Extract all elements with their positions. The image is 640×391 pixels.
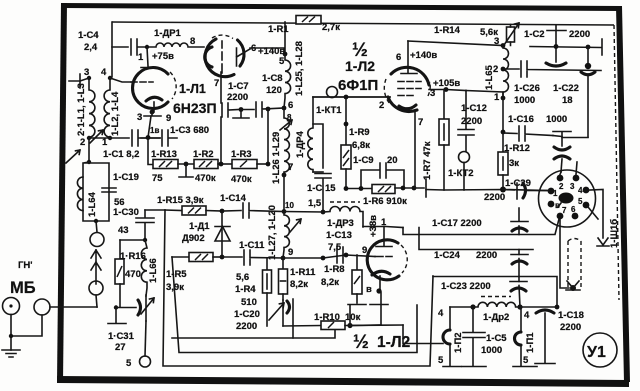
resistor 1-R6 xyxy=(372,185,395,194)
svg-text:1: 1 xyxy=(494,92,500,103)
wire: down to pin 5 xyxy=(145,321,146,356)
triode1 grid (dashed) xyxy=(131,81,153,83)
capacitor 1-C7 xyxy=(222,103,239,117)
wire: pentode cathode down to row xyxy=(414,112,416,188)
svg-text:1-С7: 1-С7 xyxy=(228,81,249,92)
wire: C23 node to DR2 xyxy=(555,305,560,310)
node under C30 xyxy=(143,238,147,242)
capacitor 1-C2 xyxy=(547,25,566,62)
capacitor C23 (feedthrough) xyxy=(510,281,527,283)
pentode cathode xyxy=(399,105,416,109)
svg-text:1-R9: 1-R9 xyxy=(349,127,370,138)
pentode grids dashed rows xyxy=(398,81,421,83)
inductor 1-L26/1-L29 (IF primary) xyxy=(284,108,289,175)
svg-text:5: 5 xyxy=(578,197,583,206)
test point 1-KT2 xyxy=(459,152,470,163)
svg-text:1-R6 910к: 1-R6 910к xyxy=(363,196,407,207)
inductor 1-DR1 xyxy=(147,43,204,47)
tube 1-L1 triode 2 (6N23P right half) envelope xyxy=(205,39,244,77)
wire: to jack P2 xyxy=(403,325,443,344)
svg-text:6: 6 xyxy=(396,52,401,63)
capacitor 1-C31 stem and plate xyxy=(108,308,126,324)
svg-text:2: 2 xyxy=(493,64,498,75)
node 10 xyxy=(282,209,287,214)
svg-text:3: 3 xyxy=(570,182,575,191)
wire: L65 bottom chain down xyxy=(502,98,504,152)
svg-text:1-С13: 1-С13 xyxy=(326,230,352,241)
capacitor 1-C13 xyxy=(337,247,343,263)
resistor 1-R9 vertical xyxy=(345,97,347,145)
capacitor 1-C19 on box right xyxy=(102,188,116,192)
wire: rail corner down to coil node xyxy=(110,22,112,78)
svg-text:6: 6 xyxy=(571,205,576,214)
wire: +105 row to L65 bottom xyxy=(466,91,503,99)
svg-text:7: 7 xyxy=(418,117,423,128)
svg-text:8: 8 xyxy=(190,36,195,47)
resistor 1-R3 xyxy=(232,160,257,169)
svg-text:+105в: +105в xyxy=(433,78,460,89)
svg-text:1-С29: 1-С29 xyxy=(505,178,531,189)
tube socket 1-Sh1 circle xyxy=(539,170,596,227)
svg-text:1-Др2: 1-Др2 xyxy=(483,312,509,323)
svg-text:3к: 3к xyxy=(509,158,519,169)
svg-text:1-С18: 1-С18 xyxy=(558,310,584,321)
pentode anode xyxy=(401,41,417,74)
svg-text:1-С17 2200: 1-С17 2200 xyxy=(432,218,482,229)
svg-text:+140в: +140в xyxy=(410,50,437,61)
svg-text:5: 5 xyxy=(438,355,444,366)
inductor 1-DR3 xyxy=(330,201,360,203)
svg-text:1-L26 1-L29: 1-L26 1-L29 xyxy=(271,132,282,184)
svg-text:1-R13: 1-R13 xyxy=(151,149,177,160)
svg-text:2,4: 2,4 xyxy=(84,42,98,53)
triode2 cathode xyxy=(205,47,212,67)
ground right rail xyxy=(597,238,609,246)
svg-text:9: 9 xyxy=(166,113,171,124)
svg-text:120: 120 xyxy=(266,85,282,96)
wire: screen +105v xyxy=(429,90,466,91)
ground stub under node xyxy=(179,164,193,177)
node top of input coils xyxy=(87,76,91,80)
socket center key xyxy=(559,193,574,204)
triode1 anode xyxy=(141,47,156,68)
svg-text:1-ДР4: 1-ДР4 xyxy=(295,130,306,158)
resistor 1-R13 xyxy=(153,160,178,169)
tube 6F1P pentode envelope xyxy=(388,67,429,111)
inductor 1-L66 xyxy=(141,240,147,296)
connector jack circle 1 xyxy=(3,298,20,315)
svg-text:1-L66: 1-L66 xyxy=(148,258,159,283)
node R13-R2 xyxy=(184,162,189,167)
resistor 1-R10 xyxy=(321,321,345,330)
capacitor C17 (feedthrough) xyxy=(511,208,528,222)
wire: anode row of L2 triode xyxy=(363,227,403,228)
node R5-C11 xyxy=(220,255,225,260)
svg-text:1-C19: 1-C19 xyxy=(113,172,139,183)
svg-text:ГН': ГН' xyxy=(18,260,33,271)
svg-text:1-R5: 1-R5 xyxy=(166,269,187,280)
svg-text:1-С: 1-С xyxy=(307,183,322,194)
node anode line to L65 xyxy=(501,43,506,48)
resistor 1-R1 (in rail) xyxy=(296,16,321,25)
shield dashed around pin7 wire xyxy=(567,241,569,287)
svg-text:1-С23 2200: 1-С23 2200 xyxy=(441,281,491,292)
wire: y338 long bottom wire xyxy=(172,326,335,338)
capacitor 1-C30 xyxy=(136,210,154,240)
svg-text:1-R7 47к: 1-R7 47к xyxy=(422,141,433,180)
node box bottom xyxy=(94,219,98,223)
svg-text:1-С11: 1-С11 xyxy=(239,240,265,251)
svg-text:1-С22: 1-С22 xyxy=(553,83,579,94)
svg-text:1-С3 680: 1-С3 680 xyxy=(170,125,209,136)
capacitor 1-C5 xyxy=(462,307,486,367)
svg-text:9: 9 xyxy=(288,247,293,258)
svg-text:510: 510 xyxy=(241,297,257,308)
wire: pin4 right to rail xyxy=(589,190,603,239)
svg-text:1-С2: 1-С2 xyxy=(524,29,545,40)
svg-text:15: 15 xyxy=(325,183,336,194)
inductor 1-L64 on box left xyxy=(77,177,83,211)
svg-text:27: 27 xyxy=(115,342,126,353)
svg-text:1-R1: 1-R1 xyxy=(268,24,289,35)
svg-text:2200: 2200 xyxy=(227,92,248,103)
svg-text:1,5: 1,5 xyxy=(308,198,322,209)
wire: pin1 left xyxy=(539,190,548,192)
svg-text:2·1-L1, 1-L3: 2·1-L1, 1-L3 xyxy=(76,83,87,136)
resistor 1-R16 (vertical) xyxy=(119,240,121,259)
trimmer capacitor at socket pin2 xyxy=(553,132,571,147)
variable capacitor 1-C20 xyxy=(287,301,290,313)
svg-text:1-С5: 1-С5 xyxy=(486,333,507,344)
svg-text:4: 4 xyxy=(438,308,444,319)
svg-text:10: 10 xyxy=(285,201,294,210)
wire: R16/L66 top xyxy=(120,239,145,241)
node grid-R9 xyxy=(344,95,349,100)
inductor 1-L1/1-L3 (left input coil) xyxy=(89,78,95,137)
resistor 1-R4 vertical xyxy=(266,258,268,270)
svg-text:1: 1 xyxy=(381,217,387,228)
svg-text:4: 4 xyxy=(578,186,583,195)
svg-text:2200: 2200 xyxy=(569,29,590,40)
svg-text:1-С16: 1-С16 xyxy=(508,114,534,125)
connector jack circle 2 xyxy=(34,299,50,315)
cathode tie bar xyxy=(144,112,161,116)
svg-text:1-Л2: 1-Л2 xyxy=(345,58,375,74)
svg-text:5,6: 5,6 xyxy=(236,272,249,283)
svg-text:1-L25, 1-L28: 1-L25, 1-L28 xyxy=(294,41,305,96)
wire: cathode bus y190 xyxy=(426,190,548,191)
wire: C8 node down to R3 xyxy=(267,109,269,164)
svg-text:МБ: МБ xyxy=(10,279,36,297)
capacitor 1-C22 top xyxy=(585,63,591,69)
plug pair (coax) circles with arrows xyxy=(96,221,97,232)
svg-text:2200: 2200 xyxy=(461,116,482,127)
triode2 anode xyxy=(237,48,251,66)
wire: +250V top rail xyxy=(112,22,614,25)
node R2-R3 with cathode line xyxy=(218,163,232,165)
resistor 1-R7 vertical xyxy=(443,90,445,120)
svg-text:1: 1 xyxy=(138,52,144,63)
capacitor 1-C16 xyxy=(503,126,553,141)
resistor 1-R2 xyxy=(178,163,194,165)
svg-text:1-L64: 1-L64 xyxy=(87,191,98,217)
svg-text:1-Л1: 1-Л1 xyxy=(179,82,206,96)
test point 1-KT1 xyxy=(327,87,338,98)
svg-text:1-R10: 1-R10 xyxy=(314,312,340,323)
svg-text:1-C4: 1-C4 xyxy=(78,30,99,41)
svg-text:7: 7 xyxy=(214,78,219,89)
svg-text:1-R14: 1-R14 xyxy=(434,25,461,36)
svg-text:+75в: +75в xyxy=(152,51,174,62)
svg-text:1-R8: 1-R8 xyxy=(324,264,345,275)
svg-text:в: в xyxy=(366,284,372,295)
variable capacitor plates at MB input xyxy=(116,307,136,309)
pin 5 terminal circle xyxy=(140,356,151,367)
wire: DR4 area right leg xyxy=(313,124,323,168)
svg-text:1-Д1: 1-Д1 xyxy=(189,221,210,232)
svg-text:1-Ш1б: 1-Ш1б xyxy=(609,219,620,248)
svg-text:Д902: Д902 xyxy=(182,233,205,244)
terminal bar (chassis feedthrough) xyxy=(414,179,426,197)
svg-text:2: 2 xyxy=(379,100,384,111)
svg-text:43: 43 xyxy=(118,225,129,236)
wire: cathode to grid row and down xyxy=(148,116,153,165)
svg-text:1-КТ2: 1-КТ2 xyxy=(448,168,474,179)
svg-text:5: 5 xyxy=(523,355,529,366)
svg-text:2: 2 xyxy=(559,182,564,191)
svg-text:18: 18 xyxy=(562,95,573,106)
svg-text:2200: 2200 xyxy=(476,250,497,261)
node anode junction left triode xyxy=(145,45,149,49)
svg-text:75: 75 xyxy=(152,173,163,184)
svg-text:5: 5 xyxy=(279,56,285,67)
inductor 1-DR2 xyxy=(481,296,511,298)
triode cathode xyxy=(372,271,390,275)
triode2 grid vertical dashed xyxy=(221,41,223,73)
svg-text:10к: 10к xyxy=(345,312,361,323)
triode anode xyxy=(376,227,392,247)
wire: pin5 diagonal xyxy=(588,207,598,219)
shield ground xyxy=(570,285,576,291)
triode grid dashed xyxy=(375,256,392,258)
svg-text:20: 20 xyxy=(387,155,398,166)
tube 1-L1 triode 1 (6N23P left half) envelope xyxy=(133,67,168,108)
svg-text:1-Л2: 1-Л2 xyxy=(377,334,410,351)
svg-text:470: 470 xyxy=(125,269,141,280)
node MB junction inside frame xyxy=(114,305,118,309)
svg-text:1-С20: 1-С20 xyxy=(234,309,260,320)
wire: L26 bottom to node 10 xyxy=(283,175,285,211)
svg-text:1-R15 3,9к: 1-R15 3,9к xyxy=(157,195,204,206)
svg-text:470к: 470к xyxy=(231,174,252,185)
wire: inner shield border dashed right xyxy=(614,25,619,300)
svg-text:2: 2 xyxy=(80,137,85,148)
node R15-C14 xyxy=(220,209,225,214)
unit symbol U1 xyxy=(583,333,617,367)
tube 1-L2 triode (audio) envelope xyxy=(367,240,399,280)
wire from C30 up to R15 node xyxy=(145,209,165,211)
box outer (block 2) xyxy=(163,210,433,366)
svg-text:1-L27, 1-L20: 1-L27, 1-L20 xyxy=(267,205,278,260)
svg-text:2200: 2200 xyxy=(236,321,257,332)
wire: MB input to frame xyxy=(50,306,97,308)
ground under jack1 xyxy=(2,350,20,357)
box around 1-L64 xyxy=(83,162,109,221)
svg-text:7: 7 xyxy=(288,162,293,173)
capacitor 1-C8 xyxy=(241,102,284,117)
svg-text:1000: 1000 xyxy=(546,114,567,125)
svg-text:4: 4 xyxy=(101,67,107,78)
svg-text:7,5: 7,5 xyxy=(328,242,342,253)
ground stub under C7-C8 node xyxy=(233,110,249,118)
svg-text:3: 3 xyxy=(494,36,499,47)
svg-text:8,2к: 8,2к xyxy=(321,277,339,288)
svg-text:470к: 470к xyxy=(195,173,216,184)
svg-text:2200: 2200 xyxy=(484,192,505,203)
svg-text:4: 4 xyxy=(524,310,530,321)
capacitor 1-C26 xyxy=(521,61,601,77)
variable arrow lower xyxy=(66,150,80,163)
wire: y326 row to R10 xyxy=(283,325,321,328)
wire: grid row y254 xyxy=(283,255,375,258)
svg-text:2200: 2200 xyxy=(560,322,581,333)
socket wires top xyxy=(560,162,577,175)
svg-text:1-L2, 1-L4: 1-L2, 1-L4 xyxy=(110,91,121,136)
resistor 1-R11 vertical xyxy=(282,258,284,269)
inductor 1-L65 xyxy=(503,46,509,96)
resistor 1-R5 xyxy=(172,256,189,258)
svg-text:1-С8: 1-С8 xyxy=(262,73,283,84)
variable arrow on L27 xyxy=(290,219,301,232)
svg-text:1000: 1000 xyxy=(481,345,502,356)
svg-text:6Ф1П: 6Ф1П xyxy=(338,77,378,94)
node below 2 xyxy=(87,160,91,164)
triode1 cathode xyxy=(146,97,162,101)
wire: coil node to grid xyxy=(110,78,131,82)
svg-text:7: 7 xyxy=(562,206,567,215)
variable arrow on L26 xyxy=(280,120,292,130)
svg-text:8,2к: 8,2к xyxy=(290,279,308,290)
svg-text:1в: 1в xyxy=(150,126,159,135)
wire: grid row y138 xyxy=(89,137,129,139)
svg-text:1-П1: 1-П1 xyxy=(525,332,536,353)
svg-text:1-С12: 1-С12 xyxy=(461,103,487,114)
svg-text:1-КТ1: 1-КТ1 xyxy=(316,105,342,116)
svg-text:1-С26: 1-С26 xyxy=(514,83,540,94)
wire: jack2 down and across xyxy=(11,315,42,336)
svg-text:1-C30: 1-C30 xyxy=(113,207,139,218)
inductor 1-L27/1-L20 xyxy=(283,212,289,259)
capacitor C24 (feedthrough) xyxy=(511,254,528,256)
wire: trimmer row to C22 rail xyxy=(553,136,588,138)
capacitor 1-C1 xyxy=(132,130,160,146)
svg-text:1-R11: 1-R11 xyxy=(290,267,316,278)
svg-text:1-C1 8,2: 1-C1 8,2 xyxy=(103,149,139,160)
resistor 1-R15 xyxy=(165,209,182,212)
socket pins xyxy=(548,188,555,195)
cathode bypass tie bars xyxy=(348,305,366,326)
svg-text:1-П2: 1-П2 xyxy=(453,332,464,353)
wire: pentode anode to R14 row xyxy=(408,41,503,46)
variable arrow across cap xyxy=(141,298,154,314)
svg-text:1-ДР1: 1-ДР1 xyxy=(154,28,182,39)
wire: anode to L25 node xyxy=(250,48,285,54)
wire: pin7 down xyxy=(560,220,569,289)
svg-text:6: 6 xyxy=(288,100,293,111)
wire: DR4 top to pentode grid xyxy=(313,96,390,98)
inductor 1-L25/1-L28 xyxy=(284,54,291,108)
wire: jack1 down xyxy=(10,315,12,351)
variable arrow at coils xyxy=(90,130,103,143)
wire: C2 row y47 xyxy=(530,39,602,55)
svg-text:1-С9: 1-С9 xyxy=(353,155,374,166)
node 9 xyxy=(281,256,286,261)
svg-text:3: 3 xyxy=(430,88,435,99)
inductor 1-DR4 xyxy=(308,97,313,172)
inductor 1-L2/1-L4 (right input coil) xyxy=(104,78,110,138)
svg-text:3: 3 xyxy=(137,112,142,123)
capacitor 1-C15 xyxy=(315,174,331,213)
svg-text:1-С24: 1-С24 xyxy=(434,250,461,261)
svg-text:½: ½ xyxy=(353,332,369,353)
svg-text:1-R2: 1-R2 xyxy=(193,149,214,160)
svg-text:6Н23П: 6Н23П xyxy=(173,100,217,116)
wire: rail to anode node xyxy=(284,22,286,54)
svg-text:1-R4: 1-R4 xyxy=(235,284,256,295)
svg-text:1-R3: 1-R3 xyxy=(231,149,252,160)
svg-text:6,8к: 6,8к xyxy=(352,140,370,151)
svg-text:1-ДР3: 1-ДР3 xyxy=(327,218,354,229)
wire: node10 row xyxy=(284,211,323,214)
svg-text:5: 5 xyxy=(126,358,132,369)
wire: cathode row y188 xyxy=(346,188,372,190)
capacitor 1-C4 xyxy=(112,39,147,55)
svg-text:9: 9 xyxy=(362,245,367,256)
svg-text:2,7к: 2,7к xyxy=(322,22,340,33)
wire: triode2 cathode lead down xyxy=(220,72,222,164)
node 7 bottom of L26 xyxy=(282,173,287,178)
wire: L65 tap row y70 xyxy=(503,68,519,70)
svg-text:1: 1 xyxy=(553,189,558,198)
svg-text:1·C31: 1·C31 xyxy=(108,331,135,342)
box inner (block 1) xyxy=(172,257,417,353)
svg-text:1000: 1000 xyxy=(514,95,535,106)
antenna terminal 3 xyxy=(69,74,80,88)
svg-text:У1: У1 xyxy=(587,344,606,361)
wire: R11 down xyxy=(282,294,284,300)
svg-text:в: в xyxy=(555,201,560,210)
